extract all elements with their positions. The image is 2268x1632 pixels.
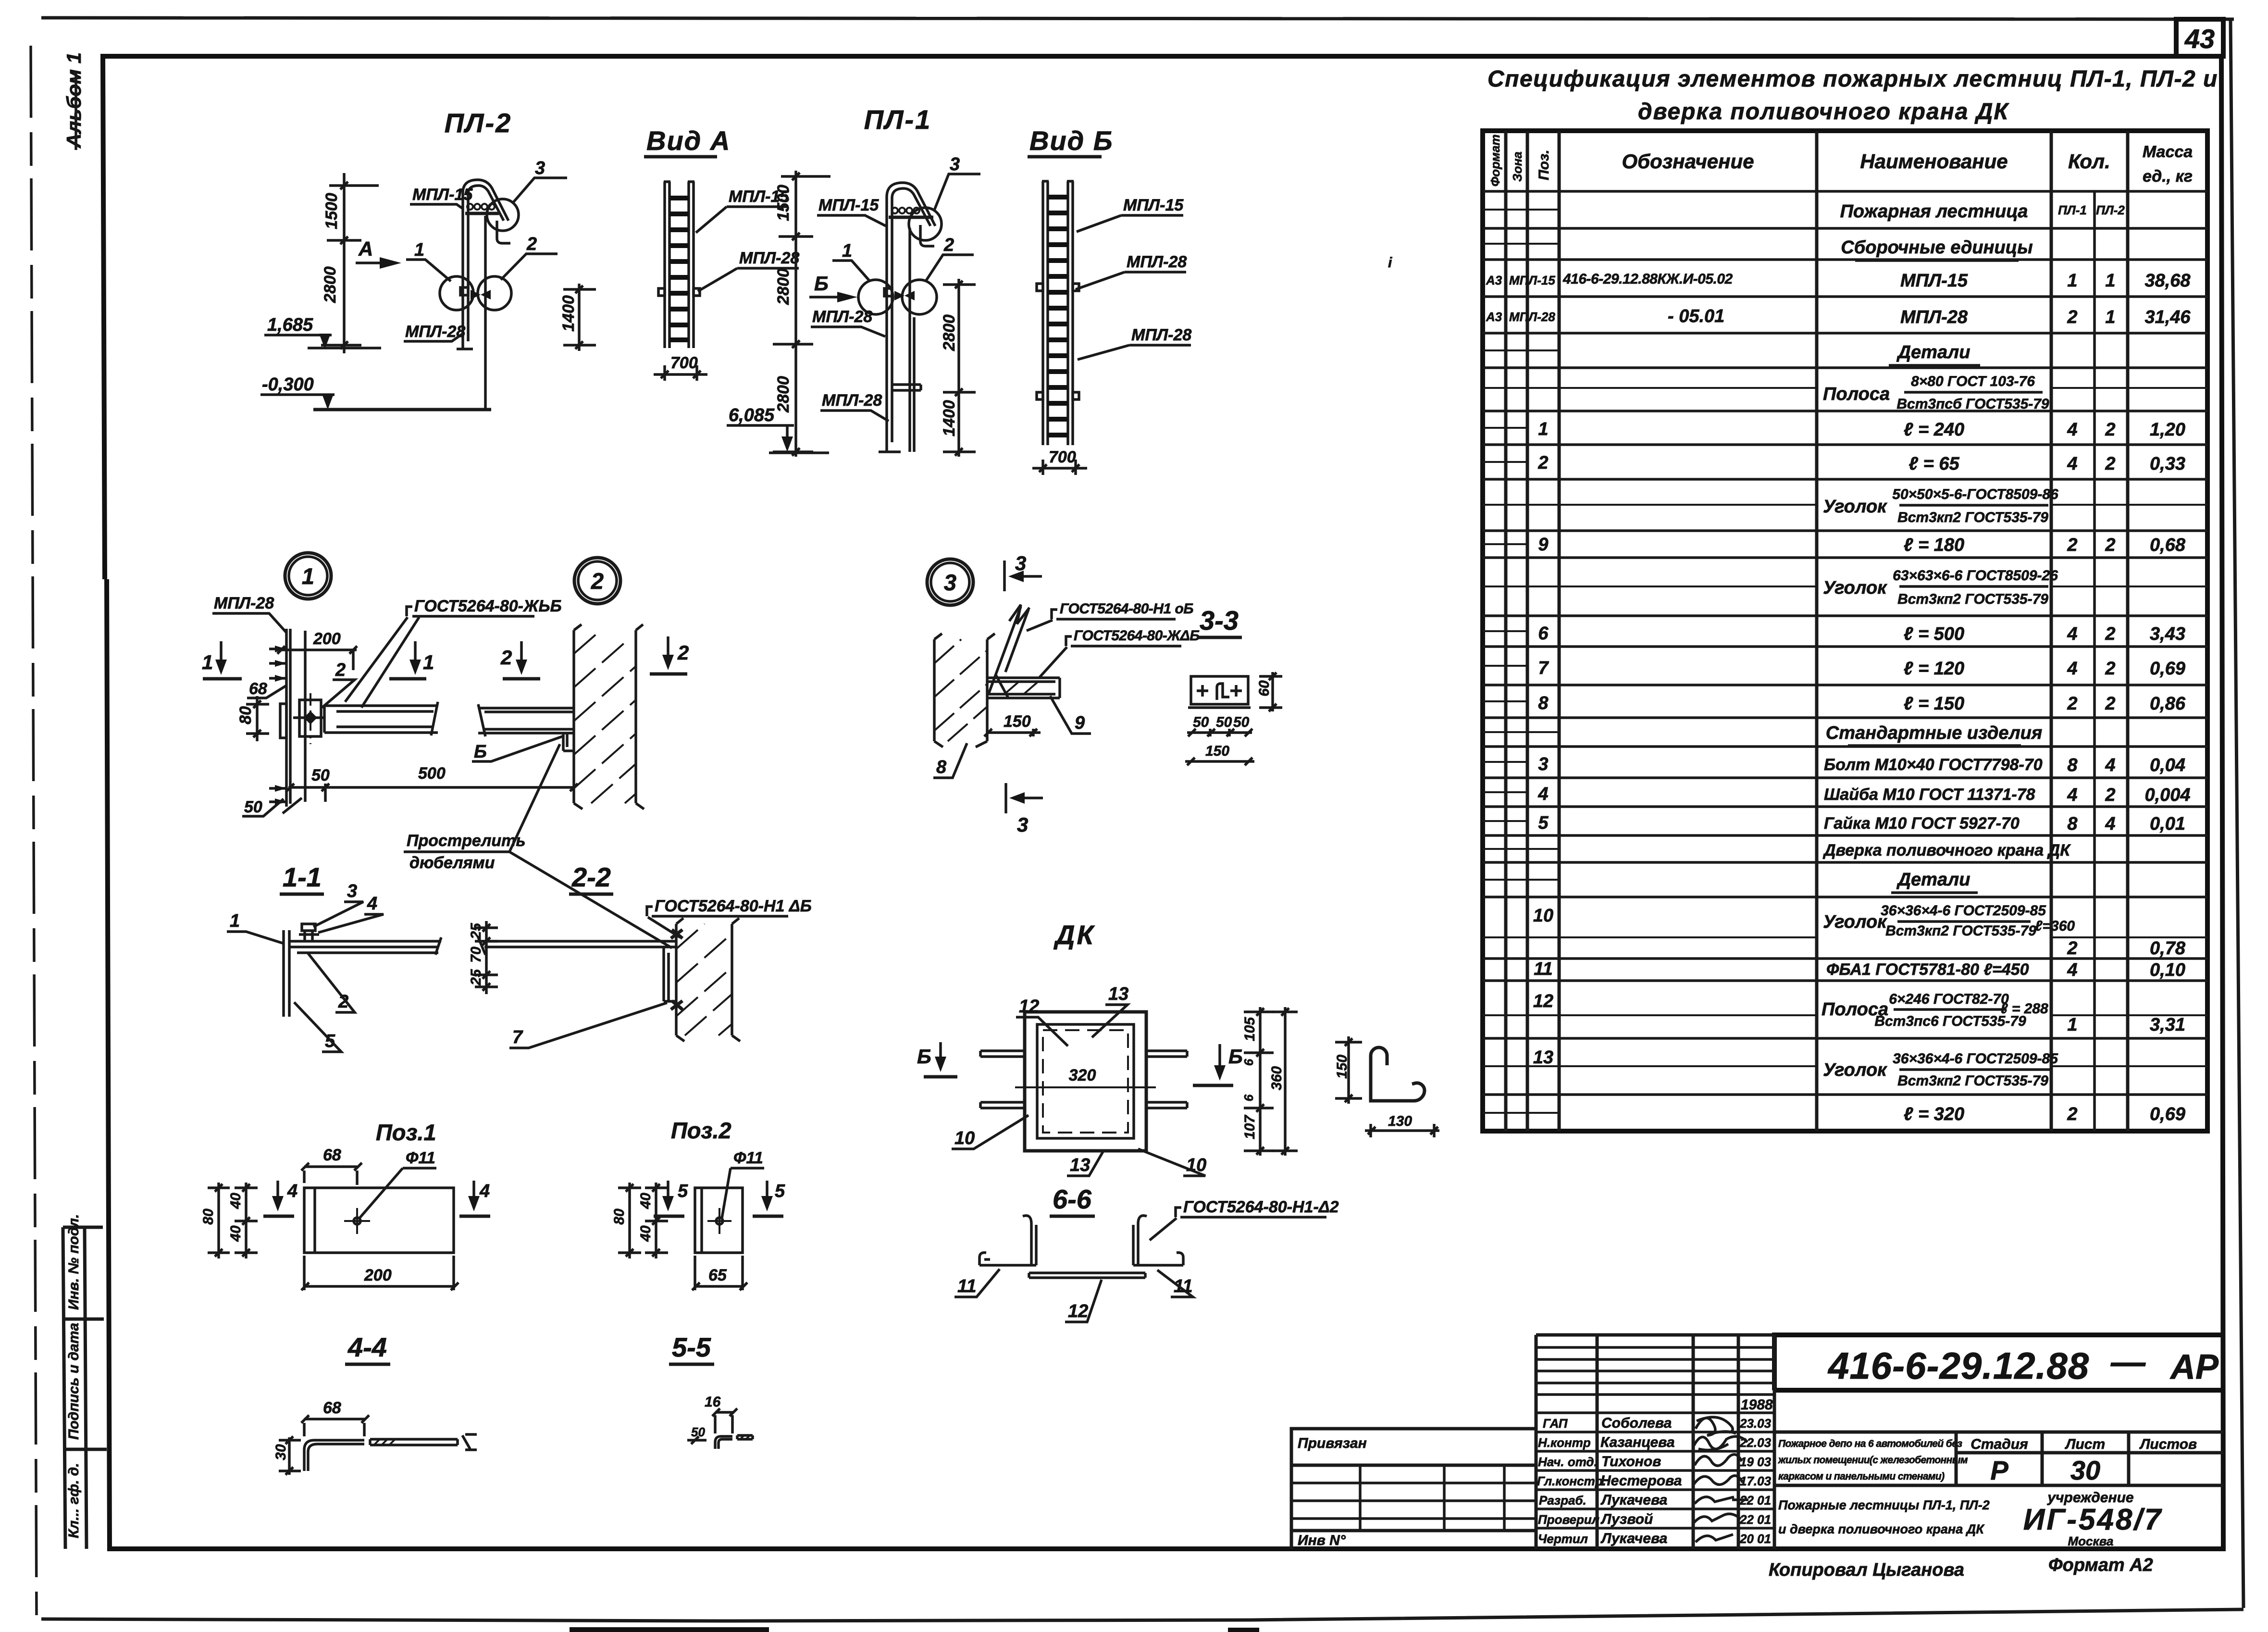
svg-text:А3: А3 [1486,273,1502,287]
hole with centerlines [344,1208,370,1234]
svg-text:МПЛ-15: МПЛ-15 [818,196,879,214]
svg-text:Чертил: Чертил [1538,1532,1588,1546]
svg-text:68: 68 [249,680,267,698]
svg-text:ПЛ-1: ПЛ-1 [2058,203,2087,217]
bottom scan edge marks [570,1630,1259,1630]
svg-text:13: 13 [1108,984,1128,1004]
svg-text:Формат: Формат [1488,134,1502,187]
svg-text:416-6-29.12.88: 416-6-29.12.88 [1827,1345,2089,1387]
svg-text:Б: Б [1228,1045,1243,1068]
project description box [1774,1432,2223,1485]
svg-text:Кл... гф. д.: Кл... гф. д. [66,1463,82,1538]
svg-text:2: 2 [2105,694,2115,714]
svg-text:150: 150 [1205,743,1229,759]
svg-text:4: 4 [2067,624,2077,644]
svg-text:Тихонов: Тихонов [1601,1454,1661,1470]
svg-text:Проверил: Проверил [1538,1512,1599,1527]
svg-text:Спецификация элементов пожар: Спецификация элементов пожарных лестниц … [1487,66,2218,92]
svg-text:3: 3 [347,881,357,901]
svg-text:Шайба М10 ГОСТ 11371-78: Шайба М10 ГОСТ 11371-78 [1824,785,2035,804]
svg-text:6: 6 [1538,623,1549,644]
svg-text:50: 50 [311,766,330,785]
svg-text:ℓ = 150: ℓ = 150 [1904,694,1964,714]
svg-text:40: 40 [638,1193,654,1209]
svg-text:Поз.2: Поз.2 [671,1118,731,1143]
svg-text:65: 65 [708,1266,727,1284]
svg-text:МПЛ-28: МПЛ-28 [1900,307,1968,327]
flat bar with hatch [370,1439,458,1445]
svg-text:50: 50 [244,798,262,816]
svg-text:30: 30 [273,1444,289,1460]
svg-text:ИГ-548/7: ИГ-548/7 [2023,1503,2163,1536]
svg-text:200: 200 [313,630,341,648]
svg-text:Лист: Лист [2065,1436,2105,1452]
svg-text:130: 130 [1388,1113,1412,1129]
svg-text:Уголок: Уголок [1823,912,1887,932]
rail vertical lines [286,629,305,807]
svg-text:17.03: 17.03 [1740,1474,1772,1488]
rebar tails [980,1051,1187,1108]
svg-text:700: 700 [670,354,698,372]
svg-text:7: 7 [512,1027,523,1047]
callout circles 1 and 2 [858,280,893,314]
outer right trim line [2231,19,2243,1608]
angle leg at wall [563,733,574,751]
bolt plate box [299,700,321,736]
svg-text:ℓ=360: ℓ=360 [2035,918,2075,934]
svg-text:ГОСТ5264-80-ЖЬБ: ГОСТ5264-80-ЖЬБ [414,597,562,615]
svg-text:1: 1 [302,563,314,589]
svg-text:Дверка поливочного крана ДК: Дверка поливочного крана ДК [1822,841,2071,860]
svg-text:-0,300: -0,300 [262,374,314,395]
callout circles 1 and 2 with bolt [440,276,473,310]
svg-text:А3: А3 [1486,310,1502,324]
svg-text:25: 25 [468,922,484,940]
svg-text:ГАП: ГАП [1543,1416,1568,1431]
plate rectangle [695,1188,743,1253]
svg-text:10: 10 [954,1128,975,1148]
svg-text:Пожарное депо на 6 автомобилей: Пожарное депо на 6 автомобилей без [1778,1438,1962,1449]
svg-text:2: 2 [677,641,689,664]
svg-text:ДК: ДК [1053,920,1095,950]
svg-text:ГОСТ5264-80-Н1-Δ2: ГОСТ5264-80-Н1-Δ2 [1183,1198,1339,1216]
base plate [1191,676,1248,704]
svg-text:1988: 1988 [1741,1397,1773,1413]
designation box 416-6-29.12.88 [1774,1335,2223,1390]
svg-text:Инв. № подл.: Инв. № подл. [66,1214,82,1310]
callout circle 3 [909,208,942,240]
svg-text:ПЛ-2: ПЛ-2 [445,108,512,138]
svg-text:105: 105 [1242,1017,1258,1041]
table horizontal row lines [1483,191,2207,1095]
svg-text:5-5: 5-5 [672,1332,711,1362]
svg-text:200: 200 [364,1266,392,1284]
svg-text:МПЛ-15: МПЛ-15 [1900,271,1968,291]
svg-text:МПЛ-28: МПЛ-28 [739,249,799,267]
svg-text:Р: Р [1990,1455,2008,1485]
ladder rail (side) with top hook [463,180,508,349]
angle leg down the wall [664,947,676,1001]
svg-text:3-3: 3-3 [1200,605,1239,635]
dimension line vertical 1500/2800 [321,173,379,353]
bracket arm with hatch [987,678,1060,698]
svg-text:50: 50 [1216,714,1232,730]
svg-text:Соболева: Соболева [1601,1415,1672,1431]
svg-text:12: 12 [1533,991,1553,1011]
svg-text:5: 5 [775,1181,785,1201]
svg-text:1-1: 1-1 [283,862,322,892]
svg-text:Инв N°: Инв N° [1298,1532,1346,1548]
svg-text:2: 2 [2067,1104,2077,1124]
svg-text:0,86: 0,86 [2150,694,2186,714]
svg-text:дверка поливочного крана: дверка поливочного крана ДК [1638,99,2009,125]
svg-text:4: 4 [2105,755,2115,775]
svg-text:Наименование: Наименование [1860,150,2008,173]
svg-text:МПЛ-15: МПЛ-15 [1509,273,1555,287]
svg-text:ГОСТ5264-80-Н1 ΔБ: ГОСТ5264-80-Н1 ΔБ [655,897,812,915]
mid bracket [892,385,921,390]
svg-text:4: 4 [367,894,377,914]
svg-text:Детали: Детали [1896,342,1971,362]
svg-text:МПЛ-28: МПЛ-28 [1127,253,1187,271]
svg-text:31,46: 31,46 [2144,307,2191,327]
svg-text:8: 8 [2067,755,2078,775]
concrete wall with hatching [574,624,644,809]
svg-text:1: 1 [2105,271,2115,291]
svg-text:63×63×6-6 ГОСТ8509-26: 63×63×6-6 ГОСТ8509-26 [1893,568,2058,584]
small flat bar [737,1435,753,1439]
svg-text:Листов: Листов [2139,1436,2197,1452]
table outer border [1483,131,2207,1131]
svg-text:1400: 1400 [940,400,958,436]
dim 40/40 left [235,1183,258,1258]
table vertical column lines [1506,131,2128,1131]
svg-text:Уголок: Уголок [1823,497,1887,517]
svg-text:Вст3кп2 ГОСТ535-79: Вст3кп2 ГОСТ535-79 [1897,510,2048,525]
svg-text:7: 7 [1538,658,1549,678]
svg-text:11: 11 [1534,959,1552,979]
svg-text:150: 150 [1004,712,1031,731]
svg-text:700: 700 [1049,448,1076,466]
wall line down to ground [484,216,487,410]
platform line under hook [465,212,499,215]
svg-text:3: 3 [1015,552,1026,574]
svg-text:- 05.01: - 05.01 [1668,306,1724,326]
ladder rungs [669,198,689,340]
svg-text:11: 11 [957,1276,976,1296]
svg-text:1,685: 1,685 [267,315,313,335]
bolt cross left [1197,685,1208,697]
svg-text:1: 1 [2067,1015,2077,1035]
svg-text:Лукачева: Лукачева [1600,1531,1667,1546]
svg-text:ПЛ-2: ПЛ-2 [2096,203,2125,217]
svg-text:Уголок: Уголок [1823,578,1887,598]
svg-text:150: 150 [1334,1055,1350,1079]
svg-text:2: 2 [2105,785,2115,805]
right dim chain 105/6/107 [1244,1007,1274,1156]
svg-text:4: 4 [2067,960,2077,980]
svg-text:1: 1 [842,241,852,261]
svg-text:40: 40 [228,1193,244,1209]
svg-text:Пожарная лестница: Пожарная лестница [1840,201,2028,222]
svg-text:ГОСТ5264-80-ЖΔБ: ГОСТ5264-80-ЖΔБ [1074,628,1200,644]
svg-text:1400: 1400 [559,295,578,332]
ladder rail with hook [887,183,935,452]
svg-text:—: — [2110,1343,2146,1382]
svg-text:МПЛ-28: МПЛ-28 [214,594,274,612]
svg-text:20 01: 20 01 [1739,1532,1771,1546]
svg-text:320: 320 [1069,1066,1096,1084]
svg-text:2800: 2800 [774,268,793,305]
concrete wall hatched [676,918,740,1041]
svg-text:Ф11: Ф11 [406,1149,435,1167]
svg-text:ℓ = 240: ℓ = 240 [1904,420,1964,440]
svg-text:38,68: 38,68 [2144,271,2191,291]
bent angle piece [304,1440,364,1471]
lower ladder module rail [910,228,914,452]
rail plate in plan [284,930,289,1017]
table half-pitch ruling in narrow columns and merged rows [1483,210,2207,1113]
svg-text:1500: 1500 [322,193,341,229]
svg-text:0,69: 0,69 [2150,659,2185,679]
svg-text:13: 13 [1533,1047,1553,1068]
svg-text:ℓ = 65: ℓ = 65 [1909,454,1959,474]
inclined stringer [988,605,1029,698]
svg-text:5: 5 [678,1181,688,1201]
svg-text:12: 12 [1019,997,1039,1017]
callout circle 3 [927,559,973,605]
svg-text:2: 2 [2105,420,2115,440]
hook return piece [497,221,510,243]
svg-text:2: 2 [2105,624,2115,644]
svg-text:Масса: Масса [2143,143,2193,161]
privyazan extension box [1291,1429,1536,1549]
callout circle 2 [574,558,620,604]
inner frame square [1037,1024,1134,1138]
svg-text:Стандартные изделия: Стандартные изделия [1826,723,2042,743]
dim 80 [246,696,269,741]
svg-text:9: 9 [1075,713,1085,733]
callout circle 3 [487,199,519,231]
svg-text:Вст3кп2 ГОСТ535-79: Вст3кп2 ГОСТ535-79 [1885,923,2036,939]
svg-text:8×80 ГОСТ 103-76: 8×80 ГОСТ 103-76 [1911,374,2035,389]
svg-text:50: 50 [1233,714,1250,730]
column split ПЛ-1/ПЛ-2 [2093,191,2096,1131]
platform line [889,216,933,219]
svg-text:1: 1 [2067,271,2077,291]
small dim left [687,1436,706,1444]
rung stub arrows [269,649,285,802]
svg-text:4: 4 [1537,784,1548,804]
svg-text:Вст3псб ГОСТ535-79: Вст3псб ГОСТ535-79 [1896,396,2049,412]
svg-text:Прострелить: Прострелить [407,832,526,850]
svg-text:40: 40 [638,1225,654,1242]
svg-text:2: 2 [500,646,512,669]
svg-text:1: 1 [2105,307,2115,327]
svg-text:13: 13 [1070,1155,1090,1175]
sheet number box 43 [2176,19,2223,56]
svg-text:3: 3 [535,158,545,178]
plate pos1 alongside rail [280,704,286,738]
svg-text:2800: 2800 [774,376,793,413]
svg-text:и дверка поливочного крана Д: и дверка поливочного крана ДК [1778,1522,1985,1536]
bracket arm [478,704,574,736]
svg-text:4: 4 [479,1181,490,1201]
hole with centerlines [707,1208,731,1234]
svg-text:ПЛ-1: ПЛ-1 [864,104,932,135]
dim 130 for profile [1365,1124,1439,1137]
svg-text:4-4: 4-4 [347,1332,387,1362]
callout circle 1 [285,553,331,599]
svg-text:ℓ = 120: ℓ = 120 [1904,659,1964,679]
svg-text:Нач. отд.: Нач. отд. [1538,1455,1598,1469]
ladder rails front [664,182,694,348]
svg-text:Лукачева: Лукачева [1600,1492,1667,1508]
svg-text:Гайка М10 ГОСТ 5927-70: Гайка М10 ГОСТ 5927-70 [1824,814,2020,833]
svg-text:6: 6 [1241,1059,1256,1066]
svg-text:Полоса: Полоса [1823,384,1890,404]
svg-text:2: 2 [2067,938,2077,959]
svg-text:ℓ = 500: ℓ = 500 [1904,624,1964,644]
dim 60 [1259,672,1282,711]
svg-text:1: 1 [423,651,434,673]
svg-text:Вст3кп2 ГОСТ535-79: Вст3кп2 ГОСТ535-79 [1897,591,2048,607]
concrete wall hatched [934,634,995,747]
horizontal centerline [1015,1086,1156,1088]
svg-text:68: 68 [323,1146,341,1164]
svg-text:Вст3кп2 ГОСТ535-79: Вст3кп2 ГОСТ535-79 [1897,1073,2048,1089]
svg-text:4: 4 [2067,454,2077,474]
svg-text:0,33: 0,33 [2150,454,2185,474]
svg-text:1500: 1500 [774,185,793,221]
svg-text:0,04: 0,04 [2150,755,2185,775]
angle profile symbol [1217,684,1229,700]
ladder rungs [1048,197,1068,435]
svg-text:Болт М10×40 ГОСТ7798-70: Болт М10×40 ГОСТ7798-70 [1824,756,2043,774]
svg-text:МПЛ-28: МПЛ-28 [1509,310,1555,324]
svg-text:ℓ = 320: ℓ = 320 [1904,1104,1964,1124]
svg-text:Поз.: Поз. [1536,149,1552,180]
C-profile symbol [1371,1047,1425,1101]
rail bottom break [283,798,302,813]
left angle with curl [979,1216,1036,1265]
svg-text:2: 2 [2067,694,2077,714]
svg-text:0,004: 0,004 [2144,785,2190,805]
svg-text:Формат А2: Формат А2 [2048,1555,2153,1575]
dim 30 [279,1436,301,1475]
svg-text:1,20: 1,20 [2150,420,2185,440]
svg-text:ФБА1 ГОСТ5781-80 ℓ=450: ФБА1 ГОСТ5781-80 ℓ=450 [1826,960,2029,979]
svg-text:дюбелями: дюбелями [409,854,495,872]
svg-text:АР: АР [2169,1348,2219,1386]
svg-text:0,01: 0,01 [2150,814,2185,834]
svg-text:А: А [358,237,373,260]
outer left dashed trim line [31,46,37,1615]
svg-text:Сборочные единицы: Сборочные единицы [1841,237,2033,258]
svg-text:0,10: 0,10 [2150,960,2185,980]
dim 1400 right [563,284,596,351]
svg-text:22.03: 22.03 [1739,1435,1772,1450]
svg-text:Гл.констр.: Гл.констр. [1537,1474,1606,1488]
signature table grid [1536,1335,1774,1549]
svg-text:Москва: Москва [2068,1534,2114,1548]
arm in plan [478,937,676,955]
svg-text:Обозначение: Обозначение [1622,150,1754,173]
rail bottom tick [457,348,473,350]
svg-text:5: 5 [1538,813,1549,833]
svg-text:Б: Б [814,272,829,295]
svg-text:2: 2 [2105,454,2115,474]
svg-text:0,68: 0,68 [2150,535,2186,555]
svg-text:36×36×4-6 ГОСТ2509-85: 36×36×4-6 ГОСТ2509-85 [1881,903,2046,919]
svg-text:Зона: Зона [1510,151,1524,182]
svg-text:Лузвой: Лузвой [1600,1511,1653,1527]
svg-text:Б: Б [917,1045,931,1068]
svg-text:3,31: 3,31 [2150,1015,2185,1035]
svg-text:30: 30 [2070,1455,2100,1485]
svg-text:Б: Б [474,742,487,762]
svg-text:3: 3 [1017,813,1028,836]
svg-text:Пожарные лестницы ПЛ-1, ПЛ-2: Пожарные лестницы ПЛ-1, ПЛ-2 [1778,1498,1990,1512]
svg-text:80: 80 [236,706,255,724]
ladder rails front [1042,181,1074,445]
svg-text:2800: 2800 [321,266,339,303]
svg-text:50×50×5-6-ГОСТ8509-86: 50×50×5-6-ГОСТ8509-86 [1892,486,2058,502]
svg-text:МПЛ-15: МПЛ-15 [1123,196,1184,214]
bottom plate [1029,1273,1145,1278]
svg-text:Кол.: Кол. [2068,150,2110,173]
svg-text:70: 70 [468,947,484,963]
svg-text:0,69: 0,69 [2150,1104,2185,1124]
svg-text:50: 50 [691,1425,705,1439]
rail bottom tick [879,450,901,453]
svg-text:19 03: 19 03 [1740,1455,1772,1469]
svg-text:8: 8 [1538,693,1549,713]
outer top trim line [41,18,2234,19]
svg-text:ед., кг: ед., кг [2143,167,2193,186]
svg-text:Вид А: Вид А [646,125,731,156]
dim 80 left [208,1183,230,1258]
svg-text:Альбом 1: Альбом 1 [62,52,85,149]
svg-text:2: 2 [591,568,604,594]
svg-text:2: 2 [2105,659,2115,679]
svg-text:МПЛ-28: МПЛ-28 [822,391,882,410]
signatures scribbles [1696,1417,1736,1435]
wall brackets [658,288,700,296]
bolt with nut [299,924,319,941]
svg-text:2: 2 [943,235,954,255]
svg-text:Уголок: Уголок [1823,1060,1887,1080]
svg-text:9: 9 [1538,535,1548,555]
svg-text:Н.контр: Н.контр [1538,1435,1591,1450]
svg-text:8: 8 [2067,814,2078,834]
svg-text:360: 360 [1269,1066,1285,1090]
svg-text:6-6: 6-6 [1053,1184,1092,1214]
right dim 2800/1400 [943,279,976,457]
svg-text:2: 2 [335,660,346,680]
bolt cross right [1230,685,1242,697]
svg-text:Вид Б: Вид Б [1029,125,1113,156]
svg-text:каркасом и панельными стена: каркасом и панельными стенами) [1778,1471,1945,1482]
svg-text:4: 4 [287,1181,297,1201]
svg-text:3: 3 [944,570,956,595]
svg-text:Копировал Цыганова: Копировал Цыганова [1769,1560,1964,1580]
svg-text:36×36×4-6 ГОСТ2509-85: 36×36×4-6 ГОСТ2509-85 [1893,1051,2058,1067]
left stamp column [63,1227,107,1549]
svg-text:1: 1 [414,240,424,260]
bar thickness ticks [462,1434,477,1450]
svg-text:3: 3 [1538,754,1548,774]
